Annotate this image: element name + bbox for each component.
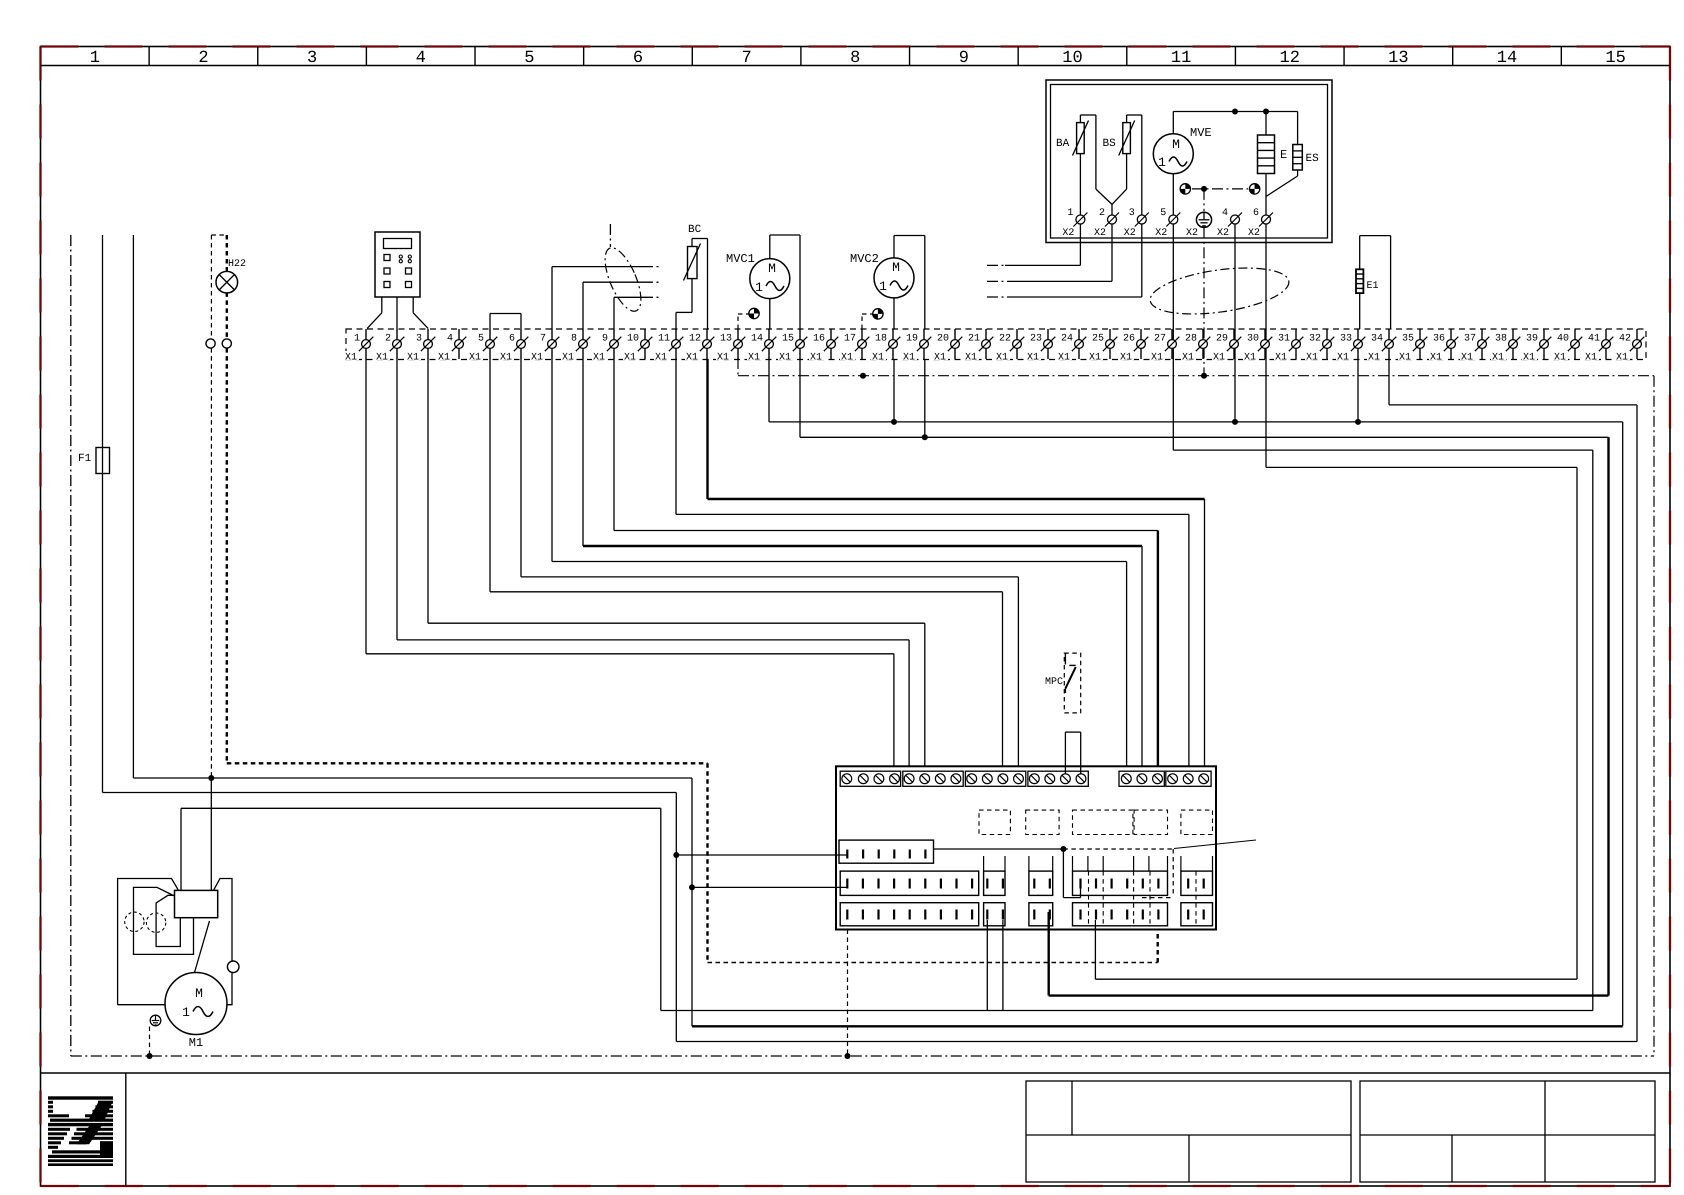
svg-text:6: 6 <box>1253 208 1259 219</box>
svg-text:1: 1 <box>90 49 100 68</box>
svg-text:X1: X1 <box>469 353 481 364</box>
svg-text:9: 9 <box>959 49 969 68</box>
svg-text:33: 33 <box>1340 334 1352 345</box>
svg-text:28: 28 <box>1185 334 1197 345</box>
svg-text:X1: X1 <box>1368 353 1380 364</box>
svg-text:X1: X1 <box>1089 353 1101 364</box>
svg-text:M: M <box>195 986 203 1001</box>
svg-text:X2: X2 <box>1248 228 1260 239</box>
svg-text:15: 15 <box>782 334 794 345</box>
svg-text:X2: X2 <box>1155 228 1167 239</box>
svg-text:9: 9 <box>602 334 608 345</box>
svg-text:H22: H22 <box>228 259 246 270</box>
svg-text:X1: X1 <box>407 353 419 364</box>
svg-text:21: 21 <box>968 334 980 345</box>
svg-text:X2: X2 <box>1217 228 1229 239</box>
svg-text:MPC: MPC <box>1045 677 1063 688</box>
svg-text:41: 41 <box>1588 334 1600 345</box>
svg-text:X1: X1 <box>438 353 450 364</box>
svg-text:X1: X1 <box>624 353 636 364</box>
svg-text:F1: F1 <box>78 453 92 465</box>
svg-text:20: 20 <box>937 334 949 345</box>
svg-text:1: 1 <box>182 1005 190 1020</box>
svg-text:BA: BA <box>1056 138 1070 150</box>
svg-text:10: 10 <box>1062 49 1082 68</box>
svg-text:X2: X2 <box>1186 228 1198 239</box>
svg-text:X1: X1 <box>779 353 791 364</box>
svg-text:X1: X1 <box>841 353 853 364</box>
svg-text:X1: X1 <box>748 353 760 364</box>
svg-text:31: 31 <box>1278 334 1290 345</box>
svg-text:X2: X2 <box>1124 228 1136 239</box>
svg-text:X1: X1 <box>1461 353 1473 364</box>
svg-text:38: 38 <box>1495 334 1507 345</box>
svg-text:MVC1: MVC1 <box>726 252 755 266</box>
svg-text:X2: X2 <box>1062 228 1074 239</box>
svg-text:2: 2 <box>198 49 208 68</box>
svg-text:X1: X1 <box>686 353 698 364</box>
svg-text:11: 11 <box>1171 49 1191 68</box>
svg-text:7: 7 <box>540 334 546 345</box>
svg-text:3: 3 <box>307 49 317 68</box>
svg-text:12: 12 <box>1280 49 1300 68</box>
svg-text:14: 14 <box>1497 49 1517 68</box>
svg-text:X1: X1 <box>996 353 1008 364</box>
svg-text:1: 1 <box>1067 208 1073 219</box>
svg-text:M: M <box>892 260 900 275</box>
svg-text:30: 30 <box>1247 334 1259 345</box>
svg-text:29: 29 <box>1216 334 1228 345</box>
svg-text:4: 4 <box>447 334 453 345</box>
svg-text:5: 5 <box>524 49 534 68</box>
svg-text:X1: X1 <box>1585 353 1597 364</box>
svg-text:X1: X1 <box>1244 353 1256 364</box>
svg-text:X1: X1 <box>1430 353 1442 364</box>
svg-text:MVC2: MVC2 <box>850 252 879 266</box>
svg-text:13: 13 <box>720 334 732 345</box>
svg-text:M: M <box>1172 137 1180 152</box>
svg-text:X1: X1 <box>717 353 729 364</box>
svg-text:1: 1 <box>1158 155 1166 170</box>
svg-text:39: 39 <box>1526 334 1538 345</box>
svg-text:X1: X1 <box>1275 353 1287 364</box>
svg-text:3: 3 <box>1129 208 1135 219</box>
svg-text:X1: X1 <box>1337 353 1349 364</box>
svg-text:X1: X1 <box>1182 353 1194 364</box>
svg-text:42: 42 <box>1619 334 1631 345</box>
svg-text:11: 11 <box>658 334 670 345</box>
svg-text:2: 2 <box>385 334 391 345</box>
svg-text:6: 6 <box>509 334 515 345</box>
svg-text:X1: X1 <box>965 353 977 364</box>
svg-text:X1: X1 <box>562 353 574 364</box>
svg-text:18: 18 <box>875 334 887 345</box>
svg-text:X1: X1 <box>345 353 357 364</box>
svg-text:19: 19 <box>906 334 918 345</box>
svg-text:34: 34 <box>1371 334 1383 345</box>
svg-text:MVE: MVE <box>1190 126 1212 140</box>
svg-text:X1: X1 <box>1151 353 1163 364</box>
svg-text:M: M <box>768 261 776 276</box>
svg-text:2: 2 <box>1099 208 1105 219</box>
svg-text:X1: X1 <box>1120 353 1132 364</box>
svg-text:X1: X1 <box>934 353 946 364</box>
svg-text:7: 7 <box>741 49 751 68</box>
svg-text:X1: X1 <box>872 353 884 364</box>
svg-text:BS: BS <box>1103 138 1117 150</box>
svg-text:ES: ES <box>1306 153 1320 165</box>
svg-text:10: 10 <box>627 334 639 345</box>
svg-text:X1: X1 <box>500 353 512 364</box>
svg-text:X1: X1 <box>655 353 667 364</box>
svg-text:35: 35 <box>1402 334 1414 345</box>
svg-text:1: 1 <box>879 279 887 294</box>
svg-text:25: 25 <box>1092 334 1104 345</box>
svg-text:23: 23 <box>1030 334 1042 345</box>
svg-text:E1: E1 <box>1367 281 1379 292</box>
svg-text:X1: X1 <box>1399 353 1411 364</box>
svg-text:36: 36 <box>1433 334 1445 345</box>
svg-text:X1: X1 <box>1027 353 1039 364</box>
svg-text:1: 1 <box>354 334 360 345</box>
svg-text:16: 16 <box>813 334 825 345</box>
svg-text:12: 12 <box>689 334 701 345</box>
svg-text:5: 5 <box>1160 208 1166 219</box>
svg-text:37: 37 <box>1464 334 1476 345</box>
svg-text:8: 8 <box>850 49 860 68</box>
svg-text:26: 26 <box>1123 334 1135 345</box>
svg-text:4: 4 <box>416 49 426 68</box>
svg-text:X1: X1 <box>1058 353 1070 364</box>
svg-text:13: 13 <box>1388 49 1408 68</box>
svg-text:X1: X1 <box>903 353 915 364</box>
svg-text:6: 6 <box>633 49 643 68</box>
svg-text:X2: X2 <box>1094 228 1106 239</box>
svg-text:17: 17 <box>844 334 856 345</box>
svg-text:24: 24 <box>1061 334 1073 345</box>
svg-text:M1: M1 <box>189 1036 203 1050</box>
svg-text:22: 22 <box>999 334 1011 345</box>
svg-text:32: 32 <box>1309 334 1321 345</box>
svg-text:40: 40 <box>1557 334 1569 345</box>
svg-text:5: 5 <box>478 334 484 345</box>
svg-text:X1: X1 <box>593 353 605 364</box>
svg-text:4: 4 <box>1222 208 1228 219</box>
svg-text:X1: X1 <box>1523 353 1535 364</box>
svg-text:X1: X1 <box>1492 353 1504 364</box>
svg-text:E: E <box>1280 148 1287 162</box>
svg-text:1: 1 <box>755 280 763 295</box>
svg-text:X1: X1 <box>1213 353 1225 364</box>
svg-text:X1: X1 <box>531 353 543 364</box>
svg-text:BC: BC <box>688 224 702 236</box>
svg-text:3: 3 <box>416 334 422 345</box>
svg-text:X1: X1 <box>1306 353 1318 364</box>
svg-text:14: 14 <box>751 334 763 345</box>
svg-text:X1: X1 <box>376 353 388 364</box>
svg-text:8: 8 <box>571 334 577 345</box>
svg-text:15: 15 <box>1605 49 1625 68</box>
svg-text:X1: X1 <box>810 353 822 364</box>
svg-text:27: 27 <box>1154 334 1166 345</box>
svg-text:X1: X1 <box>1554 353 1566 364</box>
svg-text:X1: X1 <box>1616 353 1628 364</box>
